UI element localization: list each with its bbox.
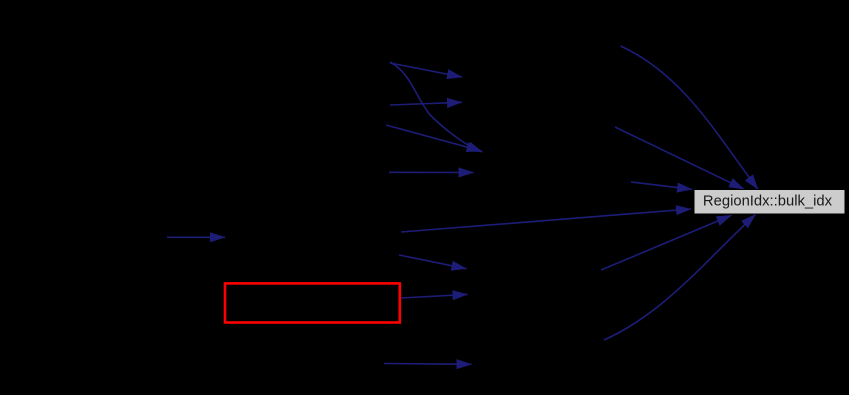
wire: curved edge node A to bulk_idx top bbox=[621, 46, 759, 189]
wire: edge node P4 to node C bbox=[389, 171, 474, 173]
wire: curved edge node P1 to node C bbox=[390, 62, 483, 152]
wire: edge node P2 to node B bbox=[390, 102, 462, 105]
wire: long edge node P5 direct to RegionIdx::bulk_idx bbox=[401, 209, 691, 232]
svg-text:RegionIdx::bulk_idx: RegionIdx::bulk_idx bbox=[703, 193, 833, 209]
wire: caller arrow into left column node bbox=[167, 236, 225, 238]
wire: edge node P5 to node D bbox=[399, 255, 466, 269]
wire: edge node P3 to node C bbox=[386, 125, 482, 151]
node: red-bordered truncated caller node bbox=[225, 283, 400, 322]
node U1: RegionIdx::bulk_idx (current function, grey) bbox=[694, 190, 845, 215]
wire: edge node P7 to node E bbox=[384, 363, 472, 366]
wire: edge node D to bulk_idx bottom bbox=[601, 215, 732, 270]
wire: edge from red node to node D bbox=[401, 294, 468, 298]
wire: edge node C to bulk_idx left bbox=[631, 182, 692, 189]
wire: curved edge node E to bulk_idx bottom bbox=[604, 215, 756, 341]
wire: edge node P1 to node A bbox=[390, 63, 462, 77]
wire: edge node B to bulk_idx top bbox=[615, 127, 744, 189]
